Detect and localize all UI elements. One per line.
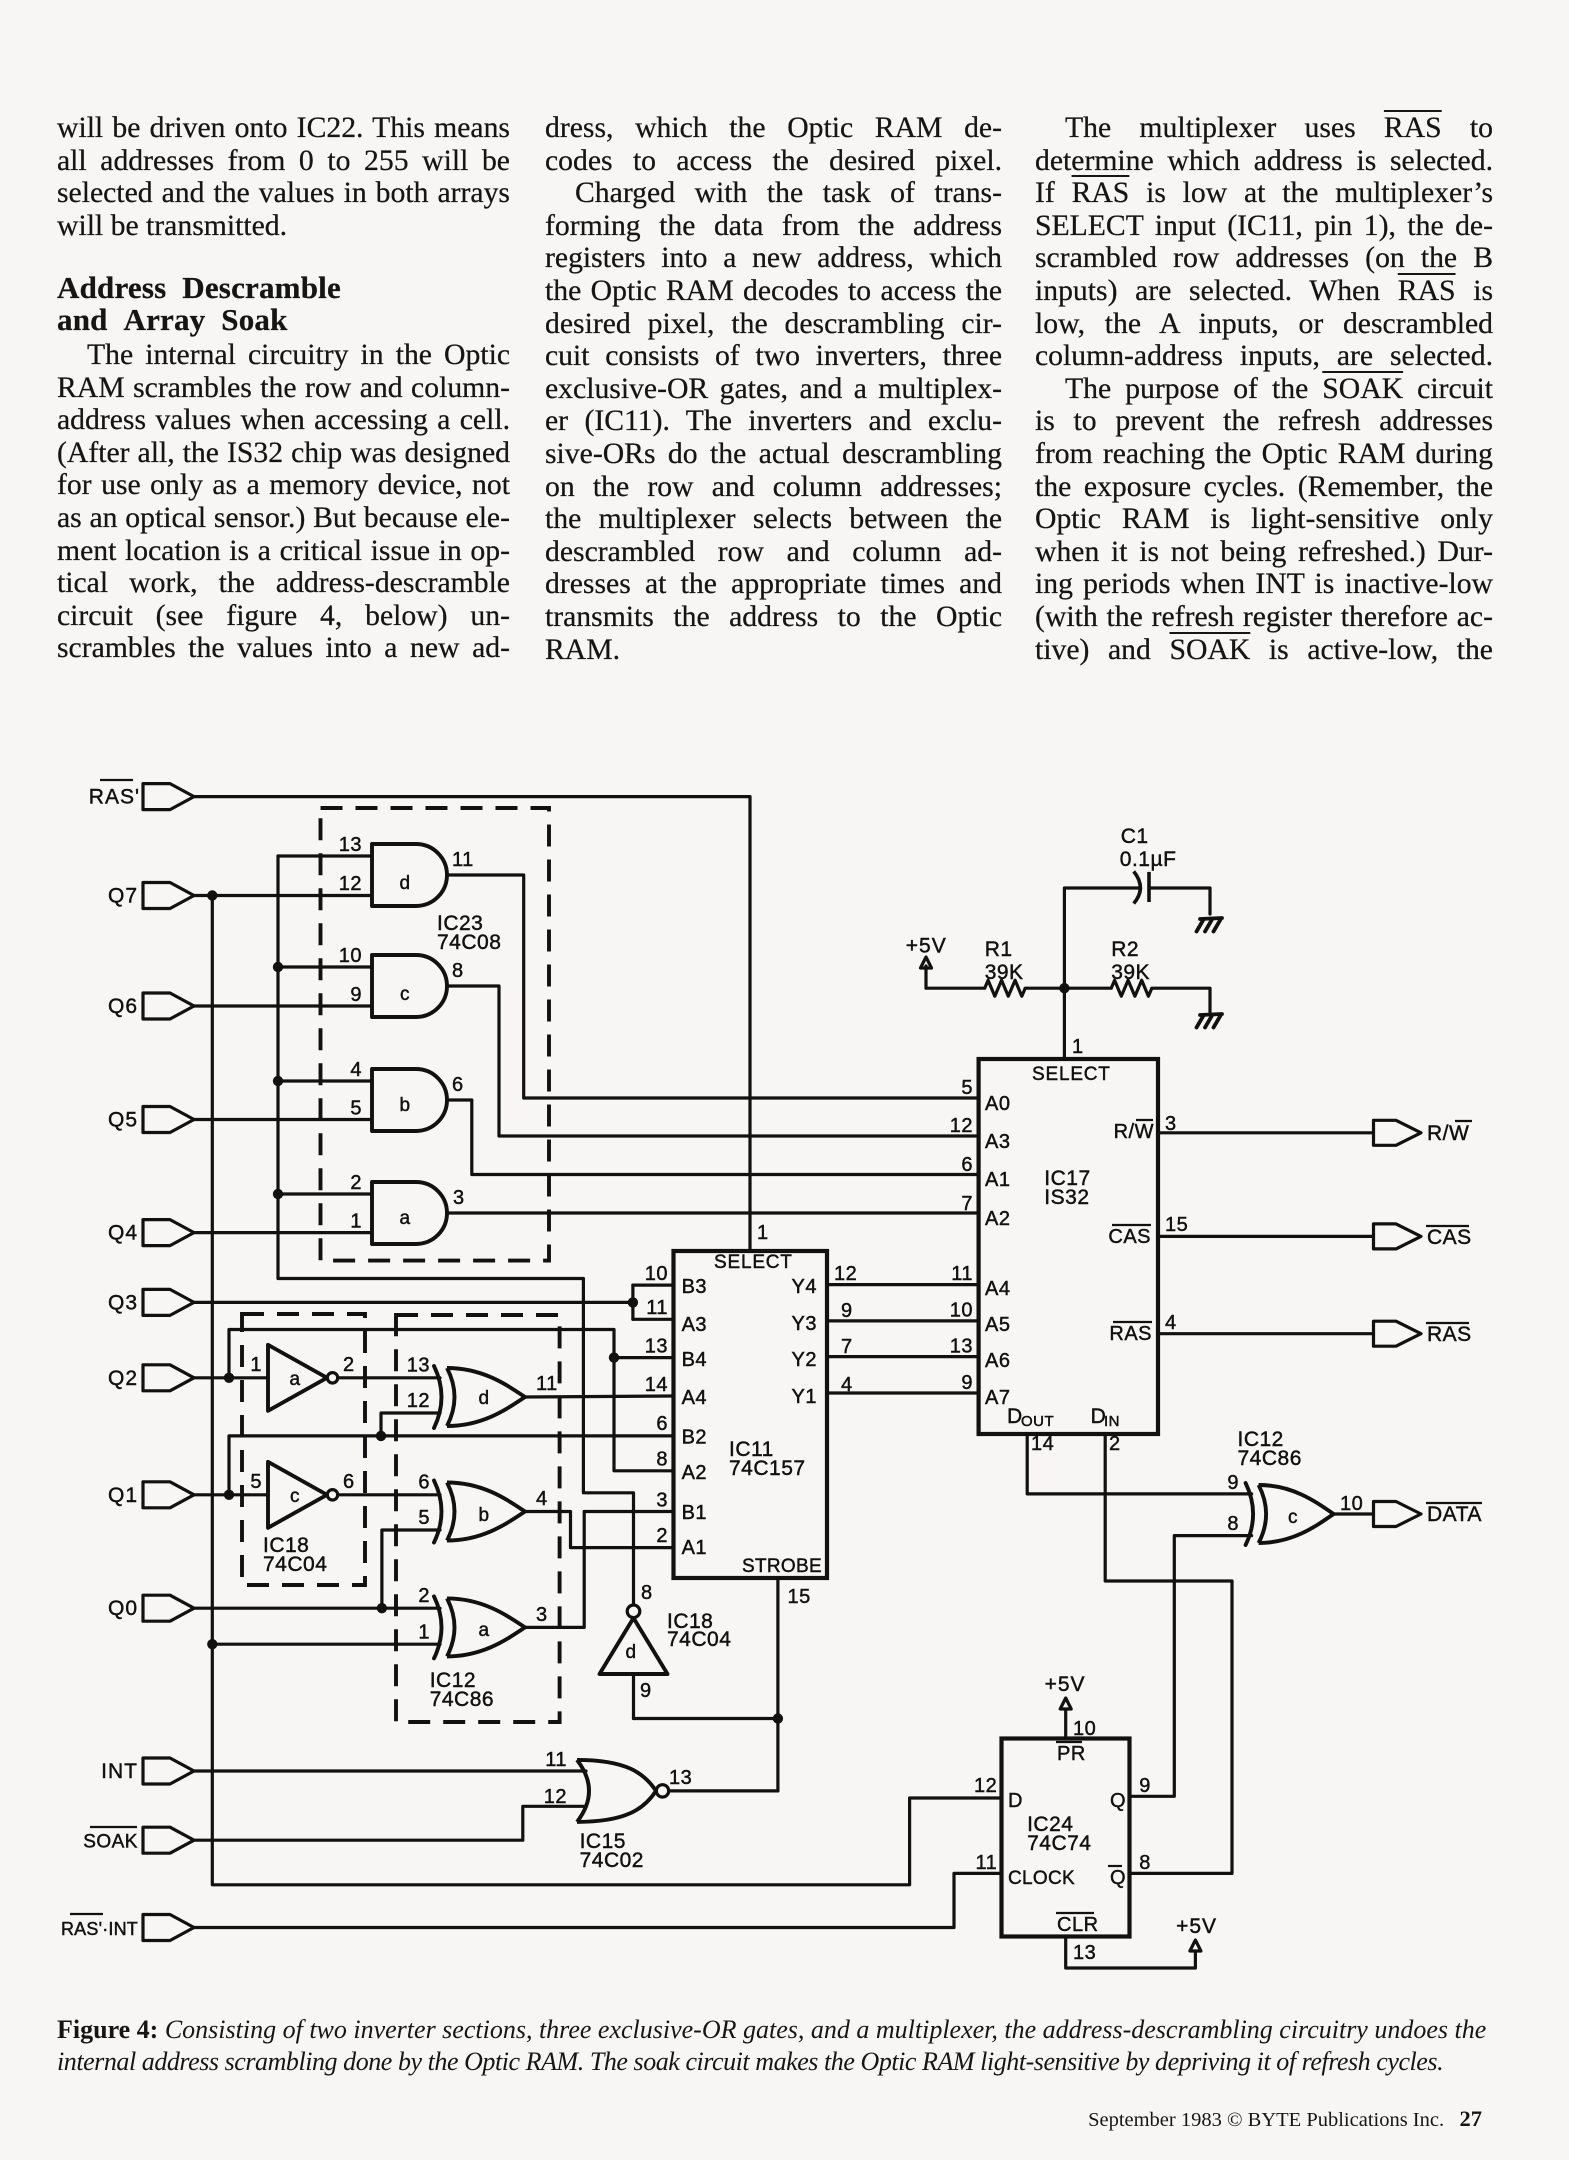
svg-text:PR: PR	[1057, 1743, 1086, 1765]
svg-text:d: d	[478, 1388, 489, 1409]
svg-text:CAS: CAS	[1108, 1226, 1151, 1248]
XOR gate IC12d	[447, 1368, 525, 1426]
overline RAS of RAS'·INT	[70, 1913, 103, 1915]
svg-text:RAS: RAS	[1427, 1323, 1472, 1346]
input connector Q4	[143, 1220, 194, 1246]
svg-text:Q3: Q3	[108, 1292, 138, 1315]
wire AND c output 8 to IC17 A3	[447, 986, 979, 1136]
AND gate IC23d	[372, 844, 447, 906]
svg-text:d: d	[399, 873, 410, 894]
svg-text:11: 11	[536, 1373, 558, 1395]
svg-text:Q7: Q7	[108, 885, 138, 908]
dashed box IC12 74C86	[396, 1315, 560, 1722]
svg-text:0.1µF: 0.1µF	[1120, 848, 1177, 871]
wire R2 to ground	[1152, 988, 1210, 1012]
dashed box IC23 74C08	[321, 808, 550, 1261]
svg-text:Q2: Q2	[108, 1367, 138, 1390]
wire inverter a output to XOR d pin 13	[339, 1376, 441, 1379]
svg-text:3: 3	[453, 1187, 465, 1209]
wire Y2 to IC17 A6	[827, 1355, 979, 1358]
wire AND c pin 10 stub	[278, 965, 372, 968]
+5V for PR	[1060, 1698, 1071, 1709]
inverter IC18a	[268, 1345, 327, 1411]
+5V supply top	[921, 957, 932, 968]
wire Q0 to XOR a pin 2	[194, 1607, 440, 1610]
svg-text:12: 12	[974, 1775, 997, 1797]
ground below R2	[1200, 1014, 1222, 1015]
wire +5V stem	[926, 966, 985, 988]
IC17 IS32 box	[979, 1059, 1158, 1434]
wire Q2 up to B4 and A2	[229, 1330, 674, 1471]
svg-text:74C08: 74C08	[437, 931, 501, 954]
svg-text:Q6: Q6	[108, 995, 138, 1018]
svg-text:5: 5	[250, 1471, 262, 1493]
wire B2 branch to XOR d pin 12	[381, 1413, 440, 1436]
svg-text:R/W: R/W	[1114, 1121, 1154, 1143]
overline RAS'	[100, 779, 133, 781]
output arrow CAS	[1374, 1224, 1422, 1249]
svg-text:3: 3	[656, 1490, 668, 1512]
svg-text:SOAK: SOAK	[83, 1832, 138, 1853]
svg-text:15: 15	[788, 1586, 811, 1608]
column 1 second paragraph	[57, 339, 510, 665]
svg-text:a: a	[478, 1620, 489, 1641]
wire inverter c output to XOR b pin 6	[339, 1493, 441, 1496]
output arrow DATA	[1374, 1502, 1422, 1527]
column 3	[1035, 112, 1493, 666]
svg-text:Q4: Q4	[108, 1222, 138, 1245]
svg-text:A3: A3	[985, 1131, 1010, 1153]
svg-text:13: 13	[1073, 1942, 1096, 1964]
svg-text:CLR: CLR	[1057, 1914, 1099, 1936]
overline RAS out	[1426, 1322, 1469, 1324]
svg-text:11: 11	[951, 1263, 973, 1285]
svg-text:9: 9	[1227, 1472, 1239, 1494]
svg-text:2: 2	[418, 1585, 430, 1607]
wire R1-R2 node to IC17 SELECT pin 1	[1063, 988, 1066, 1059]
wire XOR c output to DATA	[1334, 1512, 1374, 1515]
svg-text:4: 4	[1165, 1312, 1177, 1334]
capacitor C1	[1134, 871, 1141, 903]
wire Q2 to inverter a input	[194, 1376, 268, 1379]
resistor R1 39K	[985, 980, 1025, 996]
svg-text:+5V: +5V	[906, 935, 947, 958]
svg-text:A0: A0	[985, 1093, 1010, 1115]
svg-text:CAS: CAS	[1427, 1226, 1472, 1249]
svg-text:1: 1	[350, 1211, 362, 1233]
wire XOR c pin 8 feed from IC24 Q	[1130, 1536, 1252, 1797]
svg-text:b: b	[478, 1505, 489, 1526]
svg-text:c: c	[1288, 1507, 1298, 1528]
wire CLR to +5V	[1066, 1937, 1196, 1969]
svg-text:Y3: Y3	[792, 1313, 817, 1335]
svg-text:A6: A6	[985, 1350, 1010, 1372]
svg-text:RAS: RAS	[1109, 1323, 1152, 1345]
column 1 heading Address Descramble and Array Soak	[57, 272, 510, 335]
+5V for CLR	[1190, 1940, 1201, 1951]
svg-text:10: 10	[339, 945, 362, 967]
wire XOR a pin 1 stub	[212, 1643, 440, 1646]
junction B4	[609, 1352, 619, 1362]
wire AND d pin 12 stub from Q7	[194, 894, 372, 897]
overline CAS	[1112, 1224, 1151, 1226]
svg-text:a: a	[289, 1369, 300, 1390]
svg-text:7: 7	[961, 1193, 973, 1215]
svg-text:Y4: Y4	[792, 1276, 817, 1298]
svg-text:15: 15	[1165, 1214, 1188, 1236]
svg-text:B1: B1	[682, 1502, 707, 1524]
svg-text:B4: B4	[682, 1349, 707, 1371]
svg-text:9: 9	[1139, 1775, 1151, 1797]
AND gate IC23a	[372, 1182, 447, 1244]
svg-text:8: 8	[656, 1449, 668, 1471]
overline W out	[1455, 1120, 1472, 1122]
overline W of R/W	[1136, 1119, 1153, 1121]
resistor R2 39K	[1111, 980, 1152, 996]
column 2	[545, 112, 1002, 666]
wire RAS out	[1158, 1332, 1374, 1335]
wire Y1 to IC17 A7	[827, 1391, 979, 1394]
svg-text:2: 2	[1109, 1433, 1121, 1455]
svg-text:Q5: Q5	[108, 1109, 138, 1132]
IC24 74C74 box	[1002, 1739, 1130, 1937]
svg-text:8: 8	[641, 1582, 653, 1604]
svg-text:A5: A5	[985, 1314, 1010, 1336]
svg-text:c: c	[400, 984, 410, 1005]
wire AND common input net to inverter d output	[278, 856, 634, 1605]
svg-text:A1: A1	[682, 1537, 707, 1559]
input connector Q0	[143, 1595, 194, 1621]
svg-text:9: 9	[350, 984, 362, 1006]
IC11 74C157 box	[674, 1251, 828, 1578]
svg-text:6: 6	[452, 1074, 464, 1096]
svg-text:CLOCK: CLOCK	[1008, 1868, 1075, 1889]
wire AND c pin 9 stub from Q6	[194, 1004, 372, 1007]
svg-text:74C02: 74C02	[580, 1849, 644, 1872]
svg-text:9: 9	[640, 1680, 652, 1702]
svg-text:Q: Q	[1110, 1867, 1126, 1889]
output arrow RAS	[1374, 1321, 1422, 1346]
overline SOAK	[90, 1826, 137, 1828]
wire AND d pin 13 stub	[278, 854, 372, 857]
svg-text:74C86: 74C86	[1238, 1447, 1302, 1470]
wire RAS'.INT to IC24 CLOCK	[194, 1873, 1002, 1927]
wire inverter d pin 9 stub	[632, 1674, 635, 1719]
wire C1 left lead	[1064, 888, 1138, 988]
svg-text:11: 11	[452, 849, 474, 871]
wire IC11 STROBE pin 15 down	[776, 1578, 779, 1791]
wire XOR b output 4 to IC11 A1	[525, 1512, 674, 1548]
svg-text:4: 4	[350, 1059, 362, 1081]
wire RAS' to IC11 SELECT pin 1	[194, 797, 750, 1251]
output arrow R/W	[1374, 1120, 1422, 1145]
wire AND b pin 4 stub	[278, 1079, 372, 1082]
svg-text:c: c	[290, 1486, 300, 1507]
svg-text:A4: A4	[682, 1387, 707, 1409]
junction B2 branch	[376, 1431, 386, 1441]
junction AND c pin 10	[273, 962, 283, 972]
junction R1 R2 C1	[1059, 983, 1069, 993]
svg-text:12: 12	[339, 873, 362, 895]
figure caption	[57, 2014, 1489, 2078]
wire AND a pin 2 stub	[278, 1192, 372, 1195]
svg-text:8: 8	[1139, 1852, 1151, 1874]
svg-text:5: 5	[961, 1077, 973, 1099]
junction Q3	[628, 1297, 638, 1307]
svg-text:11: 11	[545, 1749, 567, 1771]
input connector Q5	[143, 1107, 194, 1133]
svg-text:B3: B3	[682, 1276, 707, 1298]
svg-text:Y1: Y1	[792, 1386, 817, 1408]
svg-text:DATA: DATA	[1427, 1503, 1482, 1526]
wire DOUT to XOR c pin 9	[1027, 1434, 1251, 1494]
svg-text:1: 1	[250, 1354, 262, 1376]
inverter IC18c	[268, 1462, 327, 1528]
svg-text:2: 2	[656, 1525, 668, 1547]
svg-text:INT: INT	[101, 1760, 138, 1783]
svg-text:R1: R1	[985, 938, 1013, 961]
junction STROBE inverter d	[773, 1713, 783, 1723]
XOR gate IC12b	[447, 1483, 525, 1541]
svg-text:74C74: 74C74	[1027, 1832, 1091, 1855]
svg-text:12: 12	[407, 1390, 430, 1412]
svg-text:SELECT: SELECT	[714, 1252, 793, 1273]
svg-text:74C04: 74C04	[667, 1628, 731, 1651]
svg-text:1: 1	[418, 1622, 430, 1644]
svg-text:1: 1	[1072, 1036, 1084, 1058]
svg-text:10: 10	[645, 1263, 668, 1285]
svg-text:10: 10	[1340, 1493, 1363, 1515]
column 1 paragraph	[57, 112, 510, 242]
svg-text:13: 13	[645, 1336, 668, 1358]
wire AND b pin 5 stub from Q5	[194, 1118, 372, 1121]
XOR gate IC12a	[447, 1598, 525, 1656]
inverter IC18d triangle	[600, 1618, 668, 1674]
wire AND a output 3 to IC17 A2	[447, 1211, 979, 1214]
svg-text:+5V: +5V	[1045, 1673, 1086, 1696]
svg-text:A1: A1	[985, 1169, 1010, 1191]
svg-text:d: d	[625, 1642, 636, 1663]
junction Q0	[377, 1603, 387, 1613]
wire Q7 vertical down to IC24 D feed	[212, 896, 1001, 1885]
wire CAS out	[1158, 1235, 1374, 1238]
svg-text:6: 6	[343, 1471, 355, 1493]
svg-text:8: 8	[1227, 1513, 1239, 1535]
svg-text:9: 9	[961, 1372, 973, 1394]
svg-text:SELECT: SELECT	[1032, 1064, 1111, 1085]
wire AND d output 11 to IC17 A0	[447, 875, 979, 1098]
junction Q2	[224, 1373, 234, 1383]
svg-text:A3: A3	[682, 1314, 707, 1336]
svg-text:10: 10	[950, 1300, 973, 1322]
svg-text:A4: A4	[985, 1278, 1010, 1300]
overline CAS out	[1426, 1225, 1469, 1227]
XOR gate IC12c	[1259, 1485, 1334, 1543]
AND gate IC23c	[372, 955, 447, 1017]
wire IC11 B4 stub	[614, 1356, 674, 1359]
wire Y4 to IC17 A4	[827, 1283, 979, 1286]
junction AND a pin 2	[273, 1189, 283, 1199]
svg-text:a: a	[399, 1208, 410, 1229]
svg-text:1: 1	[757, 1222, 769, 1244]
footer	[1088, 2106, 1482, 2132]
wire inverter d input from STROBE net	[634, 1717, 778, 1720]
overline PR	[1056, 1741, 1082, 1743]
input connector Q3	[143, 1289, 194, 1315]
wire IC24 Qbar to IC17 DIN	[1105, 1434, 1232, 1874]
svg-text:39K: 39K	[1111, 961, 1150, 984]
svg-text:3: 3	[536, 1604, 548, 1626]
wire +5V to PR pin 10	[1064, 1709, 1067, 1739]
svg-text:13: 13	[950, 1336, 973, 1358]
overline DATA out	[1426, 1502, 1482, 1504]
wire NOR output 13 to STROBE vertical	[670, 1789, 778, 1792]
wire Q1 up to IC11 B2	[229, 1436, 674, 1495]
wire AND b output 6 to IC17 A1	[447, 1100, 979, 1175]
svg-text:A2: A2	[985, 1208, 1010, 1230]
AND gate IC23b	[372, 1069, 447, 1131]
input connector Q6	[143, 993, 194, 1019]
svg-text:7: 7	[841, 1336, 853, 1358]
input connector Q2	[143, 1365, 194, 1391]
svg-text:B2: B2	[682, 1427, 707, 1449]
wire Y3 to IC17 A5	[827, 1319, 979, 1322]
svg-text:11: 11	[976, 1852, 998, 1874]
svg-text:+5V: +5V	[1176, 1915, 1217, 1938]
svg-text:Q1: Q1	[108, 1484, 138, 1507]
svg-text:STROBE: STROBE	[742, 1556, 822, 1577]
junction Q1	[224, 1490, 234, 1500]
NOR gate IC15	[577, 1760, 656, 1822]
svg-text:14: 14	[1031, 1433, 1054, 1455]
input connector RAS'·INT	[143, 1915, 194, 1941]
svg-text:8: 8	[452, 960, 464, 982]
svg-text:74C86: 74C86	[430, 1688, 494, 1711]
svg-text:6: 6	[961, 1154, 973, 1176]
input connector SOAK	[143, 1827, 194, 1853]
svg-text:13: 13	[339, 834, 362, 856]
svg-text:5: 5	[418, 1507, 430, 1529]
junction AND b pin 4	[273, 1076, 283, 1086]
svg-text:R/W: R/W	[1427, 1122, 1469, 1145]
input connector RAS' input	[143, 784, 194, 810]
wire C1 right lead	[1149, 888, 1210, 914]
wire XOR d output 11 to IC11 A4	[525, 1396, 674, 1397]
svg-text:R2: R2	[1111, 938, 1139, 961]
wire IC11 B3 stub	[633, 1283, 674, 1286]
overline RAS pin	[1113, 1321, 1152, 1323]
overline Qbar	[1108, 1865, 1122, 1867]
svg-text:Y2: Y2	[792, 1349, 817, 1371]
svg-text:9: 9	[841, 1300, 853, 1322]
svg-text:6: 6	[418, 1472, 430, 1494]
wire B3-A3 vertical	[631, 1285, 634, 1319]
svg-text:Q0: Q0	[108, 1597, 138, 1620]
svg-text:13: 13	[407, 1355, 430, 1377]
svg-text:12: 12	[950, 1115, 973, 1137]
svg-text:11: 11	[646, 1297, 668, 1319]
svg-text:39K: 39K	[985, 961, 1024, 984]
input connector Q1	[143, 1482, 194, 1508]
input connector Q7	[143, 883, 194, 909]
svg-text:RAS': RAS'	[89, 786, 140, 809]
svg-text:Q: Q	[1110, 1790, 1126, 1812]
overline CLR	[1056, 1912, 1094, 1914]
svg-text:12: 12	[544, 1786, 567, 1808]
svg-text:12: 12	[834, 1263, 857, 1285]
svg-text:2: 2	[350, 1172, 362, 1194]
wire R/W out	[1158, 1131, 1374, 1134]
svg-text:IN: IN	[1104, 1413, 1120, 1430]
wire XOR a output 3 to IC11 B1	[525, 1512, 674, 1628]
wire Q1 to inverter c input	[194, 1493, 268, 1496]
svg-text:14: 14	[645, 1374, 668, 1396]
wire Q3 to IC11 B3/A3	[194, 1301, 633, 1304]
svg-text:5: 5	[350, 1098, 362, 1120]
svg-text:13: 13	[669, 1767, 692, 1789]
svg-text:74C157: 74C157	[729, 1457, 806, 1480]
wire INT to NOR pin 11	[194, 1769, 586, 1772]
wire IC11 A3 stub	[633, 1318, 674, 1321]
svg-text:C1: C1	[1121, 825, 1149, 848]
input connector INT	[143, 1758, 194, 1784]
wire AND a pin 1 stub from Q4	[194, 1231, 372, 1234]
svg-text:6: 6	[656, 1413, 668, 1435]
wire SOAK to NOR pin 12	[194, 1806, 586, 1840]
svg-text:74C04: 74C04	[263, 1553, 327, 1576]
svg-text:4: 4	[536, 1488, 548, 1510]
svg-text:10: 10	[1073, 1718, 1096, 1740]
svg-text:b: b	[399, 1095, 410, 1116]
wire R1 to node	[1025, 987, 1111, 990]
ground below C1	[1200, 918, 1222, 919]
svg-text:OUT: OUT	[1021, 1413, 1054, 1430]
svg-text:A2: A2	[682, 1462, 707, 1484]
svg-text:RAS'·INT: RAS'·INT	[61, 1919, 138, 1939]
dashed box IC18 74C04	[242, 1314, 365, 1585]
svg-text:D: D	[1008, 1790, 1023, 1812]
wire Q0 branch to XOR b pin 5	[382, 1530, 440, 1608]
svg-text:2: 2	[343, 1354, 355, 1376]
svg-text:IS32: IS32	[1044, 1186, 1089, 1209]
junction Q7	[207, 890, 217, 900]
junction Q7 to XOR a pin 1	[207, 1639, 217, 1649]
